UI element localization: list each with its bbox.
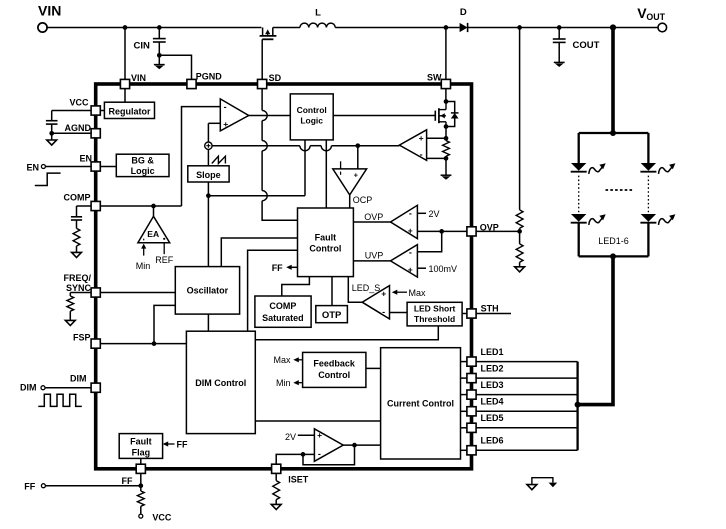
wire LED_S Max input arrow (395, 291, 407, 293)
wire SW node to SW pin (445, 28, 447, 80)
wire EA Min input arrow (143, 248, 145, 256)
pin VCC (91, 106, 100, 115)
comparator PWM (220, 99, 248, 131)
ground OVP divider (signal) (515, 267, 525, 272)
svg-text:-: - (224, 102, 227, 112)
svg-text:VIN: VIN (38, 3, 61, 19)
svg-text:-: - (382, 307, 385, 317)
block Fault Control (298, 208, 354, 277)
svg-text:DIM: DIM (70, 374, 87, 384)
wire VCC external (52, 110, 91, 112)
svg-text:+: + (419, 133, 424, 143)
svg-text:Min: Min (276, 378, 291, 388)
wire OVP pin to divider (476, 230, 519, 232)
wire OVP output (353, 221, 390, 223)
svg-text:Saturated: Saturated (262, 313, 304, 323)
svg-text:Control: Control (297, 105, 327, 115)
svg-text:LED3: LED3 (481, 380, 504, 390)
wire FSP pin to DIM Control (100, 343, 186, 345)
wire UVP 100mV reference (417, 267, 426, 269)
wire summing node to current sense (212, 145, 300, 147)
LED D4 (lower-right) (641, 214, 656, 222)
comparator OCP (333, 169, 367, 195)
junction CIN branch (157, 25, 162, 30)
wire UVP minus from OVP node (417, 231, 441, 251)
wire Fault Control to COMP Saturated (282, 277, 310, 296)
wire dotted LED continuation right (647, 176, 649, 213)
wire ISET external resistor (275, 473, 277, 480)
capacitor CIN (153, 38, 166, 40)
junction VIN-pin drop (123, 25, 128, 30)
wire DIM external (45, 387, 91, 389)
wire dotted LED continuation left (578, 176, 580, 213)
svg-text:LED5: LED5 (481, 413, 504, 423)
svg-text:-: - (420, 149, 423, 159)
svg-text:STH: STH (481, 304, 499, 314)
node EN terminal (41, 165, 45, 169)
svg-text:COUT: COUT (573, 40, 600, 51)
ground sense resistor (power) (441, 174, 452, 176)
svg-text:Current Control: Current Control (387, 399, 454, 409)
svg-text:2V: 2V (285, 432, 296, 442)
svg-text:FF: FF (122, 476, 133, 486)
wire LED Short Threshold to STH pin (462, 313, 467, 315)
node FF terminal (41, 484, 45, 488)
wire AGND node to ground (51, 133, 53, 140)
svg-text:REF: REF (155, 255, 174, 265)
transistor input-disconnect PMOS (262, 28, 264, 36)
junction AGND node (49, 131, 54, 136)
pin PGND (187, 79, 196, 88)
wire gate drive (333, 115, 435, 117)
svg-text:-: - (318, 449, 321, 459)
wire VOUT to LED string (thick) (611, 28, 615, 134)
wire source to sense resistor (445, 127, 447, 141)
wire LED Short Threshold to DIM Control (255, 326, 438, 340)
svg-text:Max: Max (409, 288, 427, 298)
wire Current Control to LED3 pin (461, 394, 468, 396)
wire rail to COUT (558, 28, 560, 39)
wire divider to ground (519, 262, 521, 267)
wire Feedback Max output arrow (295, 359, 303, 361)
resistor FREQ/SYNC set (67, 296, 74, 311)
svg-text:SYNC: SYNC (66, 283, 92, 293)
svg-text:LED_S: LED_S (352, 283, 381, 293)
LED D2 (lower-left) (571, 214, 586, 222)
svg-text:Flag: Flag (132, 448, 151, 458)
wire UVP output (353, 260, 390, 262)
svg-text:Regulator: Regulator (108, 106, 151, 116)
svg-text:+: + (408, 265, 413, 275)
wire LED1 to cathode bus (476, 361, 577, 363)
wire FSP tap to Oscillator (154, 305, 175, 343)
pin LED3 (467, 390, 476, 399)
wire FF pin to pullup (140, 473, 142, 491)
comparator current sense amp (399, 130, 426, 161)
pin FSP (91, 339, 100, 348)
waveform DIM PWM (38, 394, 82, 406)
svg-text:+: + (223, 119, 228, 129)
svg-text:Control: Control (318, 370, 350, 380)
pin ISET (272, 464, 281, 473)
junction drain (444, 99, 449, 104)
wire inductor to SW node (335, 27, 459, 29)
svg-text:Slope: Slope (196, 170, 221, 180)
wire FF external (45, 485, 140, 487)
svg-text:-: - (409, 208, 412, 218)
diode D (460, 23, 468, 32)
wire MOSFET to inductor (273, 27, 300, 29)
svg-text:Min: Min (136, 261, 151, 271)
summing junction slope adder (205, 142, 212, 149)
svg-text:LED2: LED2 (481, 364, 504, 374)
svg-text:ISET: ISET (288, 475, 309, 485)
svg-text:Max: Max (273, 355, 291, 365)
resistor OVP upper (516, 210, 523, 228)
svg-text:UVP: UVP (365, 250, 384, 260)
svg-text:+: + (317, 430, 322, 440)
svg-text:FSP: FSP (73, 333, 91, 343)
node DIM terminal (41, 386, 45, 390)
svg-text:LED6: LED6 (481, 436, 504, 446)
ground COMP network (signal) (72, 252, 82, 257)
pin SW (441, 79, 450, 88)
pin LED1 (467, 357, 476, 366)
wire OVP 2V reference (417, 212, 426, 214)
wire EA REF input (163, 243, 165, 255)
wire buffer output to Current Control (343, 444, 380, 446)
op-amp EA error amplifier (138, 216, 170, 242)
IC boundary box (96, 84, 472, 469)
svg-text:VCC: VCC (69, 98, 89, 108)
wire Fault Control to DIM Control (248, 250, 298, 331)
wire ISET pin to buffer (276, 454, 303, 464)
wire slope generator (207, 149, 209, 165)
wire Current Control to LED1 pin (461, 361, 468, 363)
svg-text:OTP: OTP (322, 310, 342, 321)
wire LED2 to cathode bus (476, 377, 577, 379)
svg-text:CIN: CIN (134, 41, 151, 52)
comparator 2V buffer (314, 429, 343, 462)
waveform EN enable step (35, 173, 61, 185)
wire slope tap to Control Logic drop (208, 195, 305, 197)
resistor OVP lower (516, 244, 523, 262)
svg-text:PGND: PGND (196, 72, 223, 82)
node VCC terminal (139, 514, 143, 518)
wire Feedback Control to Current Control (366, 367, 381, 369)
wire VCC cap to AGND node (51, 124, 53, 133)
wire CIN node to PGND pin (159, 55, 191, 79)
svg-text:SD: SD (269, 73, 282, 83)
resistor ISET set (273, 481, 280, 500)
wire OCP output to Fault Control (349, 195, 351, 208)
wire LED6 to cathode bus (476, 449, 577, 451)
ellipsis between LED strings (606, 189, 634, 191)
block Slope (188, 166, 229, 182)
svg-text:OVP: OVP (480, 222, 499, 232)
pin LED6 (467, 446, 476, 455)
junction ISET node (301, 452, 306, 457)
pin STH (467, 309, 476, 318)
block DIM Control (186, 331, 255, 433)
svg-text:Oscillator: Oscillator (187, 286, 229, 296)
wire Current Control to LED2 pin (461, 377, 468, 379)
ground ISET resistor (signal) (271, 504, 281, 509)
wire PWM plus input (208, 122, 220, 124)
svg-text:FREQ/: FREQ/ (63, 273, 91, 283)
junction LED return to bus (575, 402, 581, 408)
svg-text:LED1: LED1 (481, 347, 504, 357)
wire buffer feedback loop (303, 445, 355, 465)
wire Current Control to LED4 pin (461, 410, 468, 412)
wire LED4 to cathode bus (476, 410, 577, 412)
pin FREQ/SYNC (91, 288, 100, 297)
wire EN pin to BG block (100, 166, 116, 168)
svg-text:Fault: Fault (315, 232, 337, 242)
svg-text:COMP: COMP (269, 301, 296, 311)
svg-text:+: + (354, 170, 359, 179)
comparator LED_S short detect (362, 286, 389, 319)
junction sense minus (444, 156, 449, 161)
wire VIN rail (46, 27, 261, 29)
wire Oscillator to DIM Control (207, 314, 209, 331)
wire divider mid (519, 228, 521, 244)
svg-text:LED4: LED4 (481, 397, 504, 407)
junction FSP tap (152, 341, 157, 346)
wire sense minus input (427, 157, 446, 159)
block Regulator (104, 102, 154, 118)
pin LED2 (467, 374, 476, 383)
svg-text:DIM Control: DIM Control (195, 378, 246, 388)
pin COMP (91, 201, 100, 210)
block OTP (316, 306, 348, 323)
pin LED5 (467, 423, 476, 432)
ground COUT (power) (554, 61, 565, 63)
capacitor COMP compensation (71, 216, 82, 218)
svg-text:VCC: VCC (152, 513, 172, 523)
ground legend power symbol (549, 483, 558, 488)
wire FREQ external resistor (70, 292, 91, 294)
wire LED3 to cathode bus (476, 394, 577, 396)
junction buffer feedback (352, 443, 357, 448)
junction OVP divider tap (517, 25, 522, 30)
junction EA output (151, 204, 156, 209)
pin LED4 (467, 407, 476, 416)
junction SW node (444, 25, 449, 30)
wire OVP plus input (417, 230, 467, 232)
wire LED_S output to Fault Control (348, 277, 362, 303)
svg-text:SW: SW (427, 73, 442, 83)
svg-text:EN: EN (27, 162, 40, 172)
junction OVP-UVP link (439, 229, 444, 234)
wire COMP riser to PWM comparator (182, 107, 221, 206)
wire LED5 to cathode bus (476, 427, 577, 429)
wire FREQ pin to Oscillator (100, 292, 175, 294)
wire PWM output to Control Logic (249, 115, 291, 117)
block LED Short Threshold (407, 302, 462, 326)
pin OVP (467, 227, 476, 236)
svg-text:OUT: OUT (646, 12, 665, 22)
resistor FF pullup (137, 491, 144, 506)
wire FF flag output of Fault Control (288, 266, 298, 268)
svg-text:-: - (409, 248, 412, 258)
wire Current Control to LED6 pin (461, 449, 468, 451)
wire Oscillator to Fault Control (221, 238, 297, 267)
svg-text:AGND: AGND (65, 123, 92, 133)
ground CIN (power) (154, 64, 165, 66)
block Current Control (381, 348, 461, 459)
svg-text:+: + (381, 289, 386, 299)
wire STH external stub (476, 313, 511, 315)
wire 2V reference input (298, 434, 315, 436)
svg-text:Threshold: Threshold (414, 314, 455, 324)
svg-text:DIM: DIM (20, 383, 37, 393)
svg-text:EN: EN (79, 154, 92, 164)
wire COMP pin to EA output node (100, 205, 181, 207)
wire Slope to Oscillator (207, 182, 209, 267)
svg-text:COMP: COMP (64, 192, 91, 202)
svg-text:LED1-6: LED1-6 (598, 236, 629, 246)
svg-text:+: + (408, 226, 413, 236)
block BG and Logic (116, 154, 169, 176)
svg-text:Logic: Logic (131, 166, 155, 176)
wire LED string frame (579, 132, 649, 134)
transistor power NMOS (434, 111, 436, 121)
junction FF pullup (138, 483, 143, 488)
pin DIM (91, 383, 100, 392)
wire Control Logic to Fault Control (325, 140, 327, 208)
svg-text:FF: FF (177, 439, 188, 449)
junction CIN-PGND (157, 53, 162, 58)
block Control Logic (290, 94, 333, 140)
junction LED string top (610, 130, 616, 136)
wire sense resistor to ground (445, 156, 447, 175)
wire rail to CIN (158, 28, 160, 39)
wire FF input arrow to Fault Flag (164, 443, 174, 445)
svg-text:FF: FF (24, 482, 35, 492)
wire SW pin to drain (445, 89, 447, 102)
junction sense plus (444, 136, 449, 141)
ground legend bracket (532, 478, 553, 485)
pin SD (258, 79, 267, 88)
svg-text:Logic: Logic (300, 116, 323, 126)
wire rail to VIN pin (124, 28, 126, 80)
block Feedback Control (303, 352, 366, 387)
capacitor VCC bypass (46, 120, 58, 122)
svg-text:BG &: BG & (131, 156, 154, 166)
ground legend signal symbol (527, 485, 537, 490)
junction slope-oscillator tap (206, 193, 211, 198)
wire sense plus input (427, 137, 446, 139)
svg-text:L: L (315, 7, 321, 18)
wire COUT to ground (558, 42, 560, 62)
diode body diode (446, 102, 455, 113)
comparator UVP (391, 245, 418, 278)
LED D3 (upper-right) (641, 163, 656, 171)
svg-text:VIN: VIN (131, 73, 146, 83)
wire Current Control to LED5 pin (461, 427, 468, 429)
sawtooth icon (212, 156, 226, 163)
node VIN terminal (38, 23, 47, 32)
wire PMOS gate to SD pin (261, 39, 263, 79)
pin VIN (120, 79, 129, 88)
wire LED return (thick) (578, 256, 613, 404)
svg-text:OCP: OCP (353, 195, 373, 205)
wire buffer minus input (303, 453, 314, 455)
wire rail to OVP divider (519, 28, 521, 210)
wire OCP reference stub (340, 161, 342, 169)
svg-text:LED Short: LED Short (414, 304, 456, 314)
svg-text:EA: EA (147, 229, 159, 239)
pin EN (91, 162, 100, 171)
wire Feedback Min output arrow (295, 382, 303, 384)
svg-text:2V: 2V (429, 209, 440, 219)
svg-text:Control: Control (309, 244, 341, 254)
svg-text:OVP: OVP (364, 212, 383, 222)
inductor L (300, 23, 335, 27)
wire EN external (45, 166, 91, 168)
node VOUT terminal (658, 23, 667, 32)
svg-text:FF: FF (272, 263, 283, 273)
junction LED string bottom (610, 253, 616, 259)
pin AGND (91, 129, 100, 138)
wire Fault Flag to FF pin (140, 458, 142, 464)
ground FREQ resistor (signal) (65, 320, 75, 325)
block COMP Saturated (255, 296, 311, 327)
resistor current sense (443, 141, 450, 157)
junction LED string supply (610, 24, 616, 30)
block Fault Flag (119, 434, 162, 459)
wire diode to VOUT (468, 27, 658, 29)
wire pullup to VCC (140, 506, 142, 514)
wire LED cathode bus (576, 362, 578, 451)
comparator OVP (391, 205, 418, 238)
junction OVP tap (517, 229, 522, 234)
wire DIM Control to Current Control (255, 420, 380, 422)
wire LED_S minus input (390, 312, 408, 314)
block Oscillator (175, 267, 239, 315)
LED D1 (upper-left of LED1-6 string) (571, 163, 586, 171)
wire SD pin into IC (261, 89, 263, 111)
ground AGND (signal) (47, 140, 57, 145)
wire AGND pin to ground node (52, 132, 91, 134)
svg-text:Feedback: Feedback (313, 358, 356, 368)
svg-text:D: D (460, 7, 467, 18)
svg-text:100mV: 100mV (429, 264, 458, 274)
svg-text:Fault: Fault (130, 437, 152, 447)
wire OCP plus from sense node (357, 146, 359, 169)
wire COMP external network (77, 205, 92, 207)
wire VIN pin to Regulator (124, 89, 126, 103)
junction COUT branch (557, 25, 562, 30)
junction OCP tap (355, 143, 360, 148)
wire CIN to ground (158, 42, 160, 65)
junction source (444, 124, 449, 129)
resistor COMP compensation (76, 220, 78, 228)
pin FF (136, 464, 145, 473)
wire Fault Control to OTP (331, 277, 333, 306)
wire VCC pin to Regulator (100, 110, 104, 112)
capacitor COUT (553, 38, 566, 40)
